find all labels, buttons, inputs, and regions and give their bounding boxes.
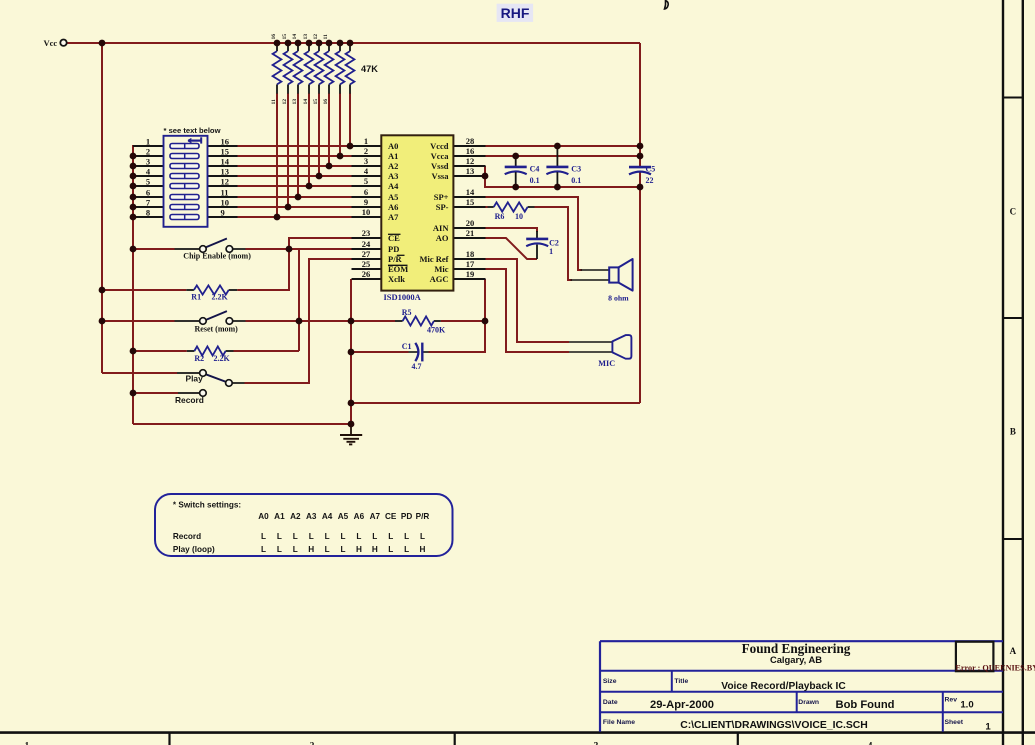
svg-text:R2: R2 [194,354,204,363]
svg-text:R5: R5 [402,308,412,317]
svg-text:11: 11 [221,187,229,197]
svg-text:26: 26 [362,269,371,279]
svg-text:Vcc: Vcc [44,38,58,48]
svg-text:4.7: 4.7 [412,362,422,371]
svg-text:10: 10 [515,212,523,221]
svg-text:Vssd: Vssd [431,161,449,171]
svg-text:15: 15 [466,197,475,207]
svg-text:12: 12 [313,34,319,40]
svg-text:23: 23 [362,228,371,238]
svg-text:14: 14 [221,156,230,166]
svg-text:22: 22 [646,176,654,185]
svg-text:14: 14 [292,34,298,40]
svg-text:Chip Enable (mom): Chip Enable (mom) [183,251,251,260]
svg-text:L: L [277,532,282,541]
svg-text:15: 15 [282,34,288,40]
svg-text:L: L [277,545,282,554]
svg-text:L: L [404,532,409,541]
svg-text:PD: PD [401,512,412,521]
svg-text:16: 16 [323,99,329,105]
svg-text:15: 15 [313,99,319,105]
svg-text:L: L [372,532,377,541]
svg-text:File Name: File Name [603,719,635,726]
svg-text:CE: CE [385,512,397,521]
svg-text:C: C [1010,207,1017,217]
svg-text:2.2K: 2.2K [212,293,229,302]
svg-text:16: 16 [221,136,230,146]
svg-text:10: 10 [221,197,230,207]
svg-text:A5: A5 [338,512,349,521]
svg-text:Play (loop): Play (loop) [173,545,215,554]
svg-text:Play: Play [186,374,204,384]
svg-text:L: L [293,545,298,554]
svg-text:Size: Size [603,678,617,685]
svg-text:Voice Record/Playback IC: Voice Record/Playback IC [721,681,846,692]
svg-text:Error : QUEENIES.BY: Error : QUEENIES.BY [955,663,1035,672]
svg-text:1: 1 [549,247,553,256]
svg-text:* Switch settings:: * Switch settings: [173,501,241,510]
svg-text:13: 13 [466,166,475,176]
svg-text:A1: A1 [274,512,285,521]
svg-text:A4: A4 [322,512,333,521]
svg-text:1: 1 [25,742,30,745]
svg-text:Vcca: Vcca [431,151,450,161]
svg-text:L: L [261,532,266,541]
svg-text:Calgary, AB: Calgary, AB [770,654,822,665]
svg-text:5: 5 [146,176,150,186]
svg-text:21: 21 [466,228,475,238]
svg-text:A5: A5 [388,192,398,202]
svg-text:24: 24 [362,239,371,249]
svg-text:1: 1 [146,136,150,146]
svg-text:L: L [261,545,266,554]
svg-text:47K: 47K [361,64,378,74]
svg-text:2: 2 [146,146,150,156]
svg-text:L: L [340,545,345,554]
svg-text:0.1: 0.1 [530,176,540,185]
svg-text:6: 6 [146,187,150,197]
svg-text:L: L [309,532,314,541]
svg-text:9: 9 [364,197,368,207]
svg-text:C1: C1 [402,342,412,351]
svg-text:25: 25 [362,259,371,269]
svg-text:L: L [325,545,330,554]
svg-text:H: H [372,545,378,554]
svg-text:Rev: Rev [945,696,958,703]
svg-text:Mic: Mic [434,264,448,274]
svg-text:L: L [356,532,361,541]
svg-text:A3: A3 [306,512,317,521]
svg-text:AO: AO [436,233,449,243]
svg-text:L: L [340,532,345,541]
svg-text:11: 11 [323,34,329,39]
svg-text:27: 27 [362,249,371,259]
svg-text:11: 11 [271,99,277,104]
svg-text:A2: A2 [290,512,301,521]
svg-text:14: 14 [466,187,475,197]
svg-text:2.2K: 2.2K [214,354,231,363]
svg-text:MIC: MIC [598,359,615,368]
svg-text:A: A [1010,646,1017,656]
svg-text:A7: A7 [388,212,399,222]
svg-text:4: 4 [868,742,873,745]
svg-text:470K: 470K [427,325,446,334]
svg-text:AIN: AIN [433,223,449,233]
svg-text:PD: PD [388,244,399,254]
svg-text:A0: A0 [388,141,398,151]
svg-text:10: 10 [362,207,371,217]
svg-text:Record: Record [175,395,204,405]
svg-text:8 ohm: 8 ohm [608,294,629,303]
svg-text:20: 20 [466,218,475,228]
svg-text:6: 6 [364,187,368,197]
svg-text:L: L [293,532,298,541]
svg-text:A6: A6 [388,202,398,212]
svg-text:12: 12 [282,99,288,105]
svg-text:H: H [308,545,314,554]
svg-text:A0: A0 [258,512,269,521]
svg-text:L: L [388,545,393,554]
svg-text:C:\CLIENT\DRAWINGS\VOICE_IC.SC: C:\CLIENT\DRAWINGS\VOICE_IC.SCH [680,720,868,731]
svg-text:A1: A1 [388,151,398,161]
svg-text:19: 19 [466,269,475,279]
svg-text:R6: R6 [495,212,505,221]
svg-text:Title: Title [674,678,688,685]
svg-text:L: L [420,532,425,541]
svg-text:14: 14 [303,99,309,105]
svg-text:AGC: AGC [430,274,449,284]
svg-text:8: 8 [146,207,150,217]
svg-text:R1: R1 [191,293,201,302]
svg-text:3: 3 [146,156,150,166]
svg-text:H: H [420,545,426,554]
svg-text:3: 3 [594,742,599,745]
svg-text:H: H [356,545,362,554]
svg-text:15: 15 [221,146,230,156]
svg-text:12: 12 [221,176,230,186]
svg-text:A4: A4 [388,181,399,191]
svg-text:A6: A6 [354,512,365,521]
svg-text:Drawn: Drawn [798,699,819,706]
svg-text:2: 2 [364,146,368,156]
svg-text:Bob Found: Bob Found [835,699,894,711]
svg-text:17: 17 [466,259,475,269]
svg-text:16: 16 [271,34,277,40]
svg-text:1.0: 1.0 [960,700,973,711]
svg-text:Xclk: Xclk [388,274,405,284]
svg-text:SP+: SP+ [434,192,449,202]
svg-text:P/R: P/R [416,512,430,521]
svg-text:29-Apr-2000: 29-Apr-2000 [650,699,714,711]
svg-text:Sheet: Sheet [945,719,964,726]
svg-text:C3: C3 [571,165,581,174]
svg-text:B: B [1010,427,1016,437]
svg-text:A3: A3 [388,171,398,181]
svg-text:ISD1000A: ISD1000A [384,292,422,302]
svg-text:L: L [388,532,393,541]
svg-text:* see text below: * see text below [164,126,221,135]
svg-text:C4: C4 [530,165,540,174]
svg-text:RHF: RHF [501,5,530,21]
svg-text:9: 9 [221,207,225,217]
svg-text:C5: C5 [646,165,656,174]
svg-text:13: 13 [292,99,298,105]
svg-text:13: 13 [303,34,309,40]
svg-text:Vssa: Vssa [431,171,449,181]
svg-text:16: 16 [466,146,475,156]
svg-text:2: 2 [310,742,315,745]
svg-text:28: 28 [466,136,475,146]
svg-text:A7: A7 [370,512,381,521]
svg-text:L: L [325,532,330,541]
svg-text:Date: Date [603,699,618,706]
svg-text:1: 1 [985,722,991,733]
svg-text:A2: A2 [388,161,398,171]
svg-text:5: 5 [364,176,368,186]
svg-text:3: 3 [364,156,368,166]
svg-text:1: 1 [364,136,368,146]
svg-text:Mic Ref: Mic Ref [419,254,448,264]
svg-text:Record: Record [173,532,201,541]
svg-text:0.1: 0.1 [571,176,581,185]
svg-text:Reset (mom): Reset (mom) [195,325,239,334]
svg-text:SP-: SP- [436,202,449,212]
svg-text:18: 18 [466,249,475,259]
svg-text:13: 13 [221,166,230,176]
svg-text:Vccd: Vccd [430,141,449,151]
svg-text:12: 12 [466,156,475,166]
svg-text:L: L [404,545,409,554]
